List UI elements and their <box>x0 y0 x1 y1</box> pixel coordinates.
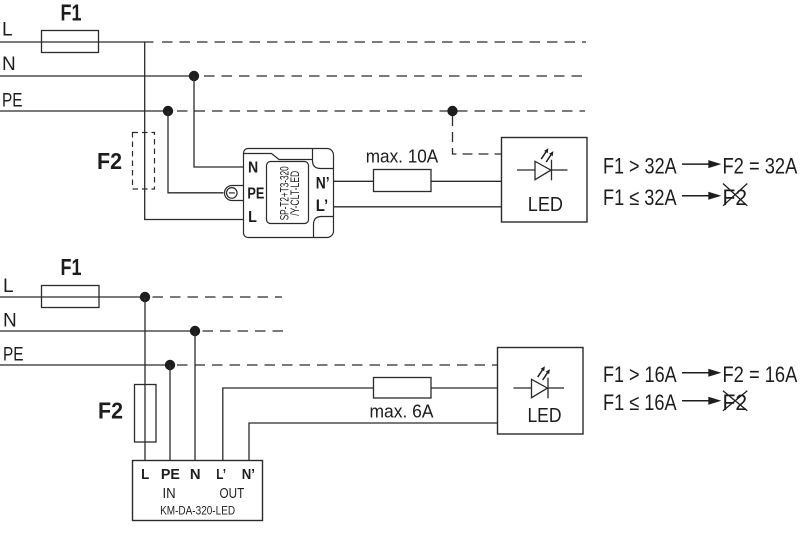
annotation arrow 2 (bottom) <box>682 400 710 402</box>
svg-text:/Y-CLT-LED: /Y-CLT-LED <box>290 171 302 216</box>
cross-out X (top) <box>723 184 747 206</box>
svg-text:PE: PE <box>3 345 24 366</box>
SPD U1 outer body outline <box>244 149 334 238</box>
svg-text:L: L <box>141 466 149 483</box>
svg-text:L: L <box>3 276 14 297</box>
wire L bus dashed continuation (bottom) <box>153 296 283 298</box>
wire PE bus solid (top) <box>0 110 168 112</box>
svg-text:max. 10A: max. 10A <box>366 146 439 166</box>
cross-out X (bottom) <box>723 391 747 411</box>
wire N bus dashed continuation (top) <box>204 75 587 77</box>
svg-text:N: N <box>190 466 201 483</box>
wire from L bus down to SPD terminal L <box>145 42 243 220</box>
fuse F2 (bottom) <box>135 385 157 443</box>
annotation arrow 2 (top) <box>682 195 710 197</box>
svg-text:F1 ≤ 32A: F1 ≤ 32A <box>603 185 677 210</box>
wire PE bus solid (bottom) <box>0 364 170 366</box>
wire N bus solid (bottom) <box>0 330 195 332</box>
wire device terminal L' up and right to fuse max.6A <box>223 388 373 461</box>
svg-text:L’: L’ <box>216 466 226 483</box>
svg-text:OUT: OUT <box>220 485 245 502</box>
wire N junction down to device terminal N <box>194 331 196 461</box>
svg-text:F1 > 32A: F1 > 32A <box>603 153 677 178</box>
svg-text:IN: IN <box>163 485 176 502</box>
svg-text:F1 > 16A: F1 > 16A <box>603 362 677 387</box>
svg-text:N’: N’ <box>316 175 330 193</box>
fuse max. 10A <box>374 170 432 192</box>
svg-text:F2: F2 <box>97 148 122 174</box>
SPD PE screw terminal tab <box>225 186 244 201</box>
LED luminaire box (bottom) <box>498 348 584 435</box>
svg-text:N: N <box>2 54 16 75</box>
wire N bus solid (top) <box>0 75 194 77</box>
wire from N junction down to SPD terminal N <box>194 76 243 167</box>
annotation arrow 1 (bottom) <box>682 372 710 374</box>
svg-text:F2: F2 <box>98 397 123 423</box>
fuse F1 (bottom) <box>42 286 100 308</box>
junction on N bus (top) <box>189 71 199 81</box>
svg-text:N: N <box>248 160 258 177</box>
wire PE bus dashed continuation (top) <box>177 110 585 112</box>
svg-text:F1 ≤ 16A: F1 ≤ 16A <box>603 390 677 415</box>
svg-text:PE: PE <box>161 466 180 483</box>
LED diode symbol D1 (top) <box>517 148 568 180</box>
junction on PE dashed line (top) <box>447 106 457 116</box>
wire N bus dashed continuation (bottom) <box>203 330 284 332</box>
junction on PE bus (bottom) <box>165 360 175 370</box>
svg-text:F1: F1 <box>61 0 82 26</box>
svg-text:LED: LED <box>528 193 563 216</box>
wire L bus solid (bottom) <box>0 296 145 298</box>
fuse max. 6A <box>374 378 432 399</box>
SPD lid step contour <box>244 154 313 160</box>
LED diode symbol D2 (bottom) <box>514 366 565 398</box>
SPD PE screw slot <box>229 192 235 194</box>
wire PE junction down to device terminal PE <box>169 365 171 461</box>
junction on N bus (bottom) <box>190 326 200 336</box>
SPD top-right ear contour <box>313 149 334 169</box>
wire L bus solid (top) <box>0 41 154 43</box>
svg-text:KM-DA-320-LED: KM-DA-320-LED <box>160 506 235 518</box>
annotation arrow 1 (top) <box>682 163 710 165</box>
fuse F2 dashed outline (top) <box>133 133 155 190</box>
junction on PE bus (top) <box>163 106 173 116</box>
wire PE bus dashed continuation to LED box (bottom) <box>177 364 498 366</box>
svg-text:LED: LED <box>527 404 561 427</box>
svg-text:F1: F1 <box>61 254 82 280</box>
svg-text:F2 = 16A: F2 = 16A <box>723 362 798 387</box>
svg-text:F2: F2 <box>723 185 748 210</box>
svg-text:F2 = 32A: F2 = 32A <box>723 153 798 178</box>
junction on L bus (bottom) <box>140 292 150 302</box>
wire SPD N' to fuse max.10A <box>334 180 374 182</box>
wire from PE junction down to SPD PE screw terminal <box>168 111 224 193</box>
wire L bus dashed continuation (top) <box>162 41 586 43</box>
svg-text:L: L <box>248 209 257 226</box>
wire fuse max.10A to LED box (top) <box>431 180 502 182</box>
fuse F1 (top) <box>42 31 99 53</box>
driver device KM-DA-320-LED box <box>133 461 263 521</box>
svg-text:N’: N’ <box>242 466 255 483</box>
SPD inner label plate <box>267 162 309 224</box>
wire SPD L' to LED box (top) <box>334 206 502 208</box>
svg-text:PE: PE <box>247 185 264 202</box>
dashed PE branch wire to LED box (top) <box>453 116 502 154</box>
svg-text:L: L <box>2 20 13 41</box>
wire fuse max.6A to LED box (bottom) <box>431 387 498 389</box>
svg-text:L’: L’ <box>316 197 329 215</box>
wire L junction down to device terminal L <box>144 297 146 461</box>
svg-text:PE: PE <box>2 91 23 112</box>
SPD PE screw head circle <box>227 188 238 199</box>
LED luminaire box (top) <box>502 138 588 223</box>
wire device terminal N' up and right to LED box (bottom) <box>249 423 498 461</box>
SPD bottom-right ear contour <box>314 217 334 238</box>
svg-text:max. 6A: max. 6A <box>370 402 434 422</box>
svg-text:N: N <box>3 310 17 331</box>
